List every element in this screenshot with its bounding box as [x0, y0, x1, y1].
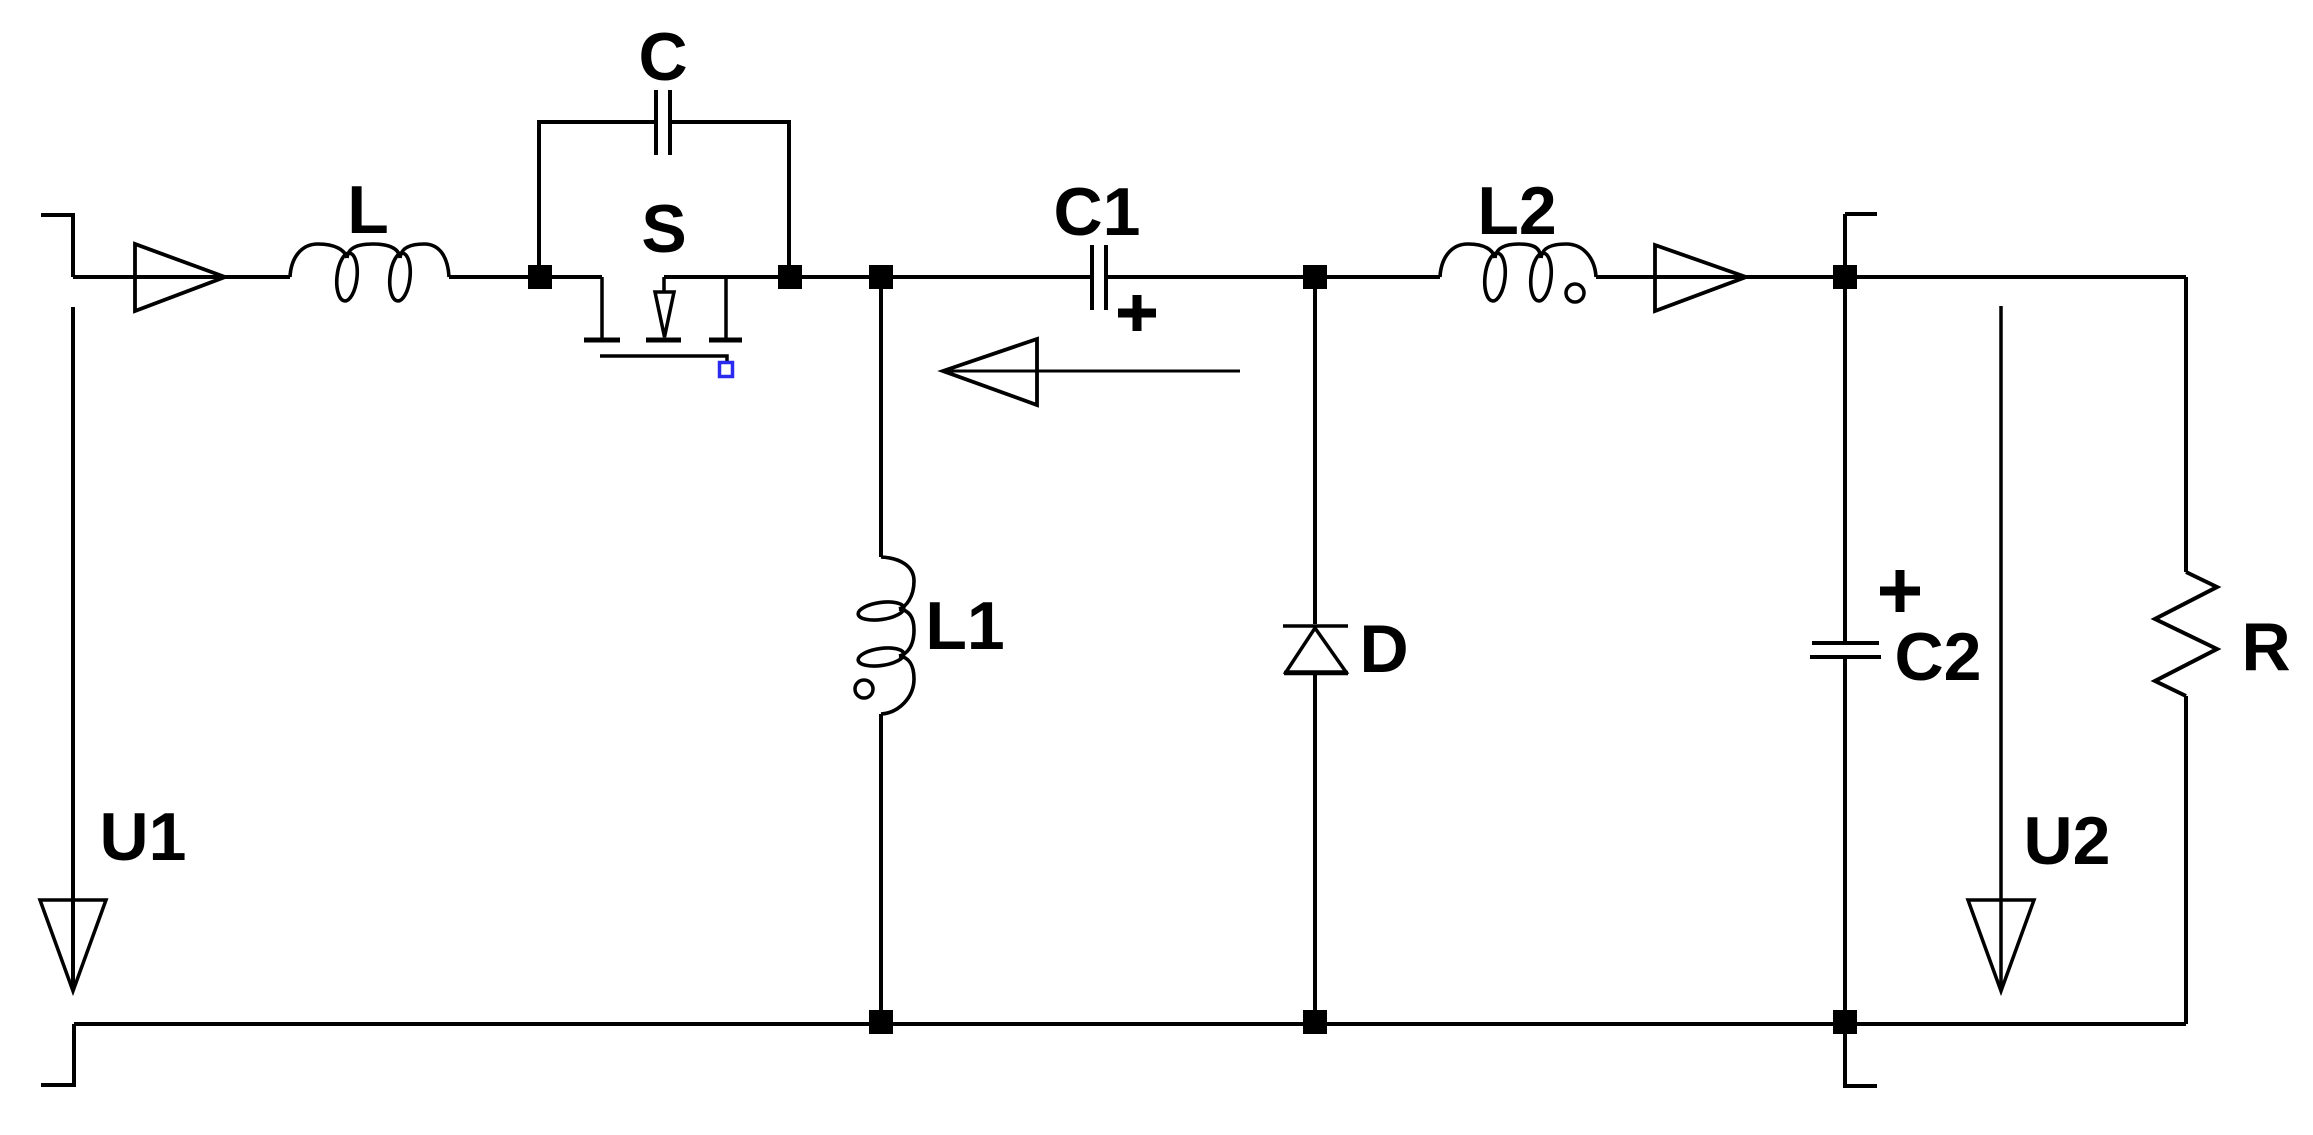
svg-text:L: L: [347, 172, 389, 248]
svg-text:L2: L2: [1477, 173, 1556, 249]
svg-text:U1: U1: [100, 799, 187, 875]
svg-text:C: C: [638, 19, 687, 95]
svg-text:R: R: [2241, 609, 2290, 685]
svg-text:C2: C2: [1895, 619, 1982, 695]
svg-text:C1: C1: [1054, 174, 1141, 250]
svg-text:S: S: [641, 191, 686, 267]
svg-text:D: D: [1359, 611, 1408, 687]
svg-text:L1: L1: [925, 588, 1004, 664]
svg-text:U2: U2: [2024, 803, 2111, 879]
